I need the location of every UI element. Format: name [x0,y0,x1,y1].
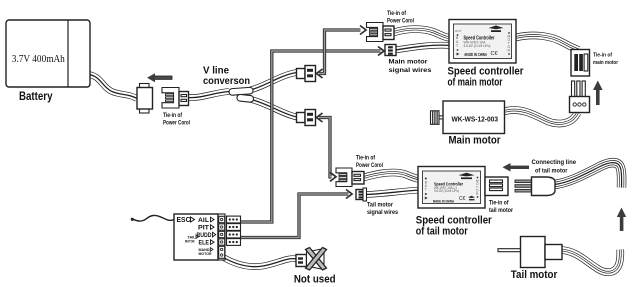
wire V-line upper connector to main power plug [317,26,367,79]
svg-text:of main motor: of main motor [448,77,503,89]
svg-text:signal wires: signal wires [367,209,398,216]
V-line upper connector [297,66,316,82]
svg-text:MOTOR: MOTOR [199,251,212,256]
svg-text:Tie-in of: Tie-in of [163,112,183,119]
main motor signal connector [385,45,432,75]
svg-text:C€: C€ [491,51,498,57]
svg-text:Power Corol: Power Corol [356,162,383,169]
svg-text:tail motor: tail motor [489,207,513,214]
svg-text:MADE IN CHINA: MADE IN CHINA [433,199,454,204]
svg-text:OUT: OUT [455,29,462,33]
tail motor signal connector [356,188,398,216]
svg-text:3.7V 400mAh: 3.7V 400mAh [12,53,65,65]
not used plug [294,248,336,286]
svg-text:Tail motor: Tail motor [511,269,558,281]
svg-text:Power Corol: Power Corol [387,18,414,25]
tail motor [498,237,562,282]
svg-text:Connecting line: Connecting line [532,159,577,166]
svg-text:PIT: PIT [198,225,209,232]
wire main motor to male connector [504,110,578,123]
V splitter sleeves [229,87,254,102]
tie-in of power cord plug (battery side) [162,88,190,127]
wire tail signal connector to tail ESC [366,190,420,195]
tie-in of power cord plug (main, top) [367,10,415,41]
battery female connector [137,84,153,114]
svg-text:Tail motor: Tail motor [367,201,393,208]
receiver antenna [133,215,174,221]
svg-text:Tie-in of: Tie-in of [489,200,509,207]
svg-text:signal wires: signal wires [389,67,432,74]
up arrow (tail motor) [617,208,626,232]
wire main ESC to female tie-in of main motor [516,35,579,50]
wire V-line lower connector to tail power plug [317,113,337,181]
battery [6,20,90,103]
svg-text:WK-WS-12-003: WK-WS-12-003 [452,115,499,124]
speed controller of main motor box [449,20,516,64]
wire V splitter upper branch [250,73,297,91]
svg-text:of tail motor: of tail motor [416,225,468,237]
receiver plug blocks [227,216,241,223]
wire V splitter lower branch [251,100,297,118]
svg-text:ELE: ELE [199,240,210,247]
wire tail motor leads [562,250,620,273]
svg-text:V line: V line [203,66,229,77]
svg-text:Tie-in of: Tie-in of [593,53,612,59]
svg-text:Power Corol: Power Corol [163,120,190,127]
tie-in of main motor female connector [571,50,619,77]
arrow connecting line of tail motor [503,159,577,175]
svg-text:Tie-in of: Tie-in of [387,10,407,17]
svg-text:main motor: main motor [593,60,619,66]
svg-text:ESC: ESC [177,217,191,224]
main motor [431,101,505,147]
wire connecting line of tail motor arc [555,163,622,188]
label speed controller of tail motor [416,214,493,237]
tie-in of tail motor female connector [485,177,513,214]
svg-text:RUDD: RUDD [197,232,212,239]
speed controller of tail motor box [418,167,485,209]
label speed controller of main motor [448,66,525,89]
receiver pin squares [219,216,225,222]
svg-text:Main motor: Main motor [389,59,428,66]
wire tie-in socket to V splitter [188,92,229,98]
svg-text:MOTOR: MOTOR [185,239,195,244]
wire top power socket to main ESC [394,29,451,38]
svg-text:Not used: Not used [294,274,336,286]
wire main signal connector to main ESC [396,45,451,50]
svg-text:T: T [456,44,458,48]
up arrow (main motor tie-in) [593,81,603,106]
wire receiver to not-used plug [220,256,296,267]
connecting line male connector [515,177,555,196]
wire AIL signal to main motor signal connector [241,47,385,223]
svg-text:T: T [425,188,427,192]
wire tail power socket to tail ESC [364,172,420,179]
svg-text:3.6-8V (1Cell LiPo): 3.6-8V (1Cell LiPo) [434,189,459,193]
svg-text:3.6-8V (1Cell LiPo): 3.6-8V (1Cell LiPo) [464,44,491,48]
svg-text:Tie-in of: Tie-in of [356,155,376,162]
svg-text:MADE IN CHINA: MADE IN CHINA [465,52,488,57]
svg-text:AIL: AIL [198,217,209,224]
svg-text:Battery: Battery [19,89,53,103]
svg-text:C€: C€ [459,196,466,202]
receiver [174,214,241,260]
V line conversion label [203,66,250,88]
svg-text:Main motor: Main motor [449,135,502,147]
main motor male connector [570,81,590,113]
wire RUDD signal to tail motor signal connector [241,190,353,238]
tie-in of power cord plug (tail) [336,155,383,187]
svg-text:of tail motor: of tail motor [535,167,568,174]
V-line lower connector [297,110,316,126]
wire battery to tie-in connector [89,75,137,99]
svg-text:converson: converson [203,76,250,87]
arrow left near battery connector [147,73,172,82]
